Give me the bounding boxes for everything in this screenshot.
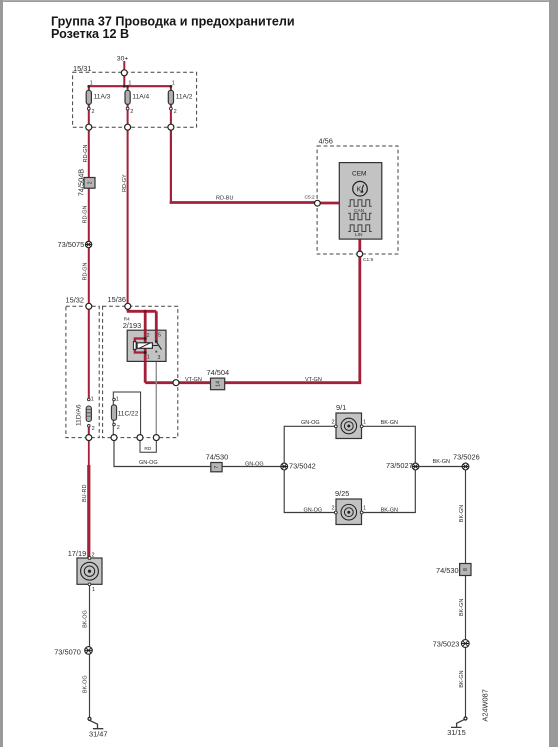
svg-text:RD-GY: RD-GY	[122, 174, 128, 192]
svg-text:2: 2	[147, 333, 150, 339]
svg-text:2: 2	[92, 109, 95, 115]
svg-text:RD-GN: RD-GN	[83, 205, 89, 223]
svg-text:2: 2	[332, 506, 335, 512]
svg-text:11C/22: 11C/22	[118, 411, 139, 418]
svg-text:1: 1	[92, 587, 95, 593]
svg-text:74/530: 74/530	[436, 566, 459, 575]
svg-text:2: 2	[87, 181, 93, 184]
svg-text:2: 2	[117, 425, 120, 431]
svg-text:14: 14	[215, 381, 221, 387]
svg-text:BK-GN: BK-GN	[381, 420, 398, 426]
svg-text:17/19: 17/19	[68, 549, 87, 558]
svg-text:73/5042: 73/5042	[289, 461, 316, 470]
svg-text:A24W087: A24W087	[480, 689, 489, 721]
svg-text:74/504: 74/504	[207, 368, 230, 377]
svg-text:2/193: 2/193	[123, 321, 142, 330]
svg-text:BU-RD: BU-RD	[82, 485, 88, 502]
svg-text:15/36: 15/36	[108, 295, 127, 304]
svg-text:1: 1	[90, 81, 93, 87]
svg-text:LIN: LIN	[355, 232, 363, 238]
svg-text:2: 2	[130, 109, 133, 115]
svg-text:2: 2	[92, 553, 95, 559]
svg-text:15/32: 15/32	[66, 296, 85, 305]
svg-text:1: 1	[91, 397, 94, 403]
svg-text:73/5027: 73/5027	[386, 461, 413, 470]
svg-text:9/25: 9/25	[335, 489, 349, 498]
svg-text:31/47: 31/47	[89, 729, 108, 738]
svg-text:BK-GN: BK-GN	[381, 507, 398, 513]
svg-text:1: 1	[147, 355, 150, 361]
svg-text:9/1: 9/1	[336, 403, 346, 412]
svg-text:73/5070: 73/5070	[54, 647, 81, 656]
svg-text:11A/3: 11A/3	[94, 93, 111, 100]
svg-text:RD: RD	[144, 446, 151, 452]
svg-text:BK-OG: BK-OG	[83, 675, 89, 693]
svg-text:15/31: 15/31	[73, 64, 92, 73]
svg-text:8: 8	[463, 568, 469, 571]
svg-text:GN-OG: GN-OG	[245, 462, 264, 468]
svg-text:BK-GN: BK-GN	[459, 670, 465, 687]
svg-text:73/5075: 73/5075	[58, 240, 85, 249]
svg-text:73/5023: 73/5023	[433, 639, 460, 648]
svg-text:2: 2	[174, 109, 177, 115]
svg-text:GN-OG: GN-OG	[139, 460, 158, 466]
svg-text:C5:2: C5:2	[305, 195, 315, 201]
svg-text:C1:9: C1:9	[363, 257, 373, 263]
svg-text:1: 1	[363, 506, 366, 512]
svg-text:BK-GN: BK-GN	[433, 459, 450, 465]
svg-text:RD-GN: RD-GN	[83, 262, 89, 280]
svg-text:74/504B: 74/504B	[77, 169, 86, 197]
svg-text:GN-OG: GN-OG	[301, 420, 320, 426]
svg-text:RD-GN: RD-GN	[83, 144, 89, 162]
svg-text:1: 1	[128, 81, 131, 87]
svg-text:RD-BU: RD-BU	[216, 195, 233, 201]
svg-text:2: 2	[92, 426, 95, 432]
svg-text:BK-OG: BK-OG	[83, 610, 89, 628]
svg-text:74/530: 74/530	[206, 453, 229, 462]
svg-text:5: 5	[158, 333, 161, 339]
svg-text:1: 1	[116, 397, 119, 403]
svg-text:30+: 30+	[117, 56, 129, 63]
svg-text:11A/2: 11A/2	[176, 93, 193, 100]
svg-text:VT-GN: VT-GN	[305, 377, 322, 383]
svg-text:31/15: 31/15	[447, 728, 466, 737]
svg-text:3: 3	[157, 355, 160, 361]
svg-text:CEM: CEM	[352, 170, 366, 177]
svg-text:CAN: CAN	[354, 208, 365, 214]
svg-text:1: 1	[172, 81, 175, 87]
svg-text:7: 7	[214, 466, 220, 469]
svg-text:1: 1	[363, 420, 366, 426]
svg-text:11A/4: 11A/4	[132, 93, 149, 100]
svg-text:BK-GN: BK-GN	[459, 505, 465, 522]
svg-text:VT-GN: VT-GN	[185, 377, 202, 383]
svg-text:4/56: 4/56	[319, 137, 333, 146]
svg-text:2: 2	[332, 420, 335, 426]
svg-text:BK-GN: BK-GN	[459, 599, 465, 616]
svg-text:11D/A6: 11D/A6	[76, 404, 83, 426]
svg-text:Розетка 12 В: Розетка 12 В	[51, 27, 129, 41]
svg-text:73/5026: 73/5026	[453, 453, 480, 462]
svg-text:GN-OG: GN-OG	[304, 507, 323, 513]
